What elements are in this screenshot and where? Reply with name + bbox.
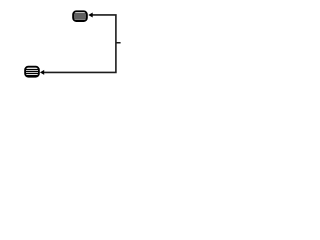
wire: top horizontal, right vertical, bottom horizontal xyxy=(44,15,116,72)
drum icon (bottom) xyxy=(25,67,39,77)
node stub on right vertical wire xyxy=(116,42,121,44)
drum icon (top) xyxy=(73,11,87,21)
arrowhead into top drum xyxy=(88,13,92,18)
arrowhead into bottom drum xyxy=(40,70,44,75)
